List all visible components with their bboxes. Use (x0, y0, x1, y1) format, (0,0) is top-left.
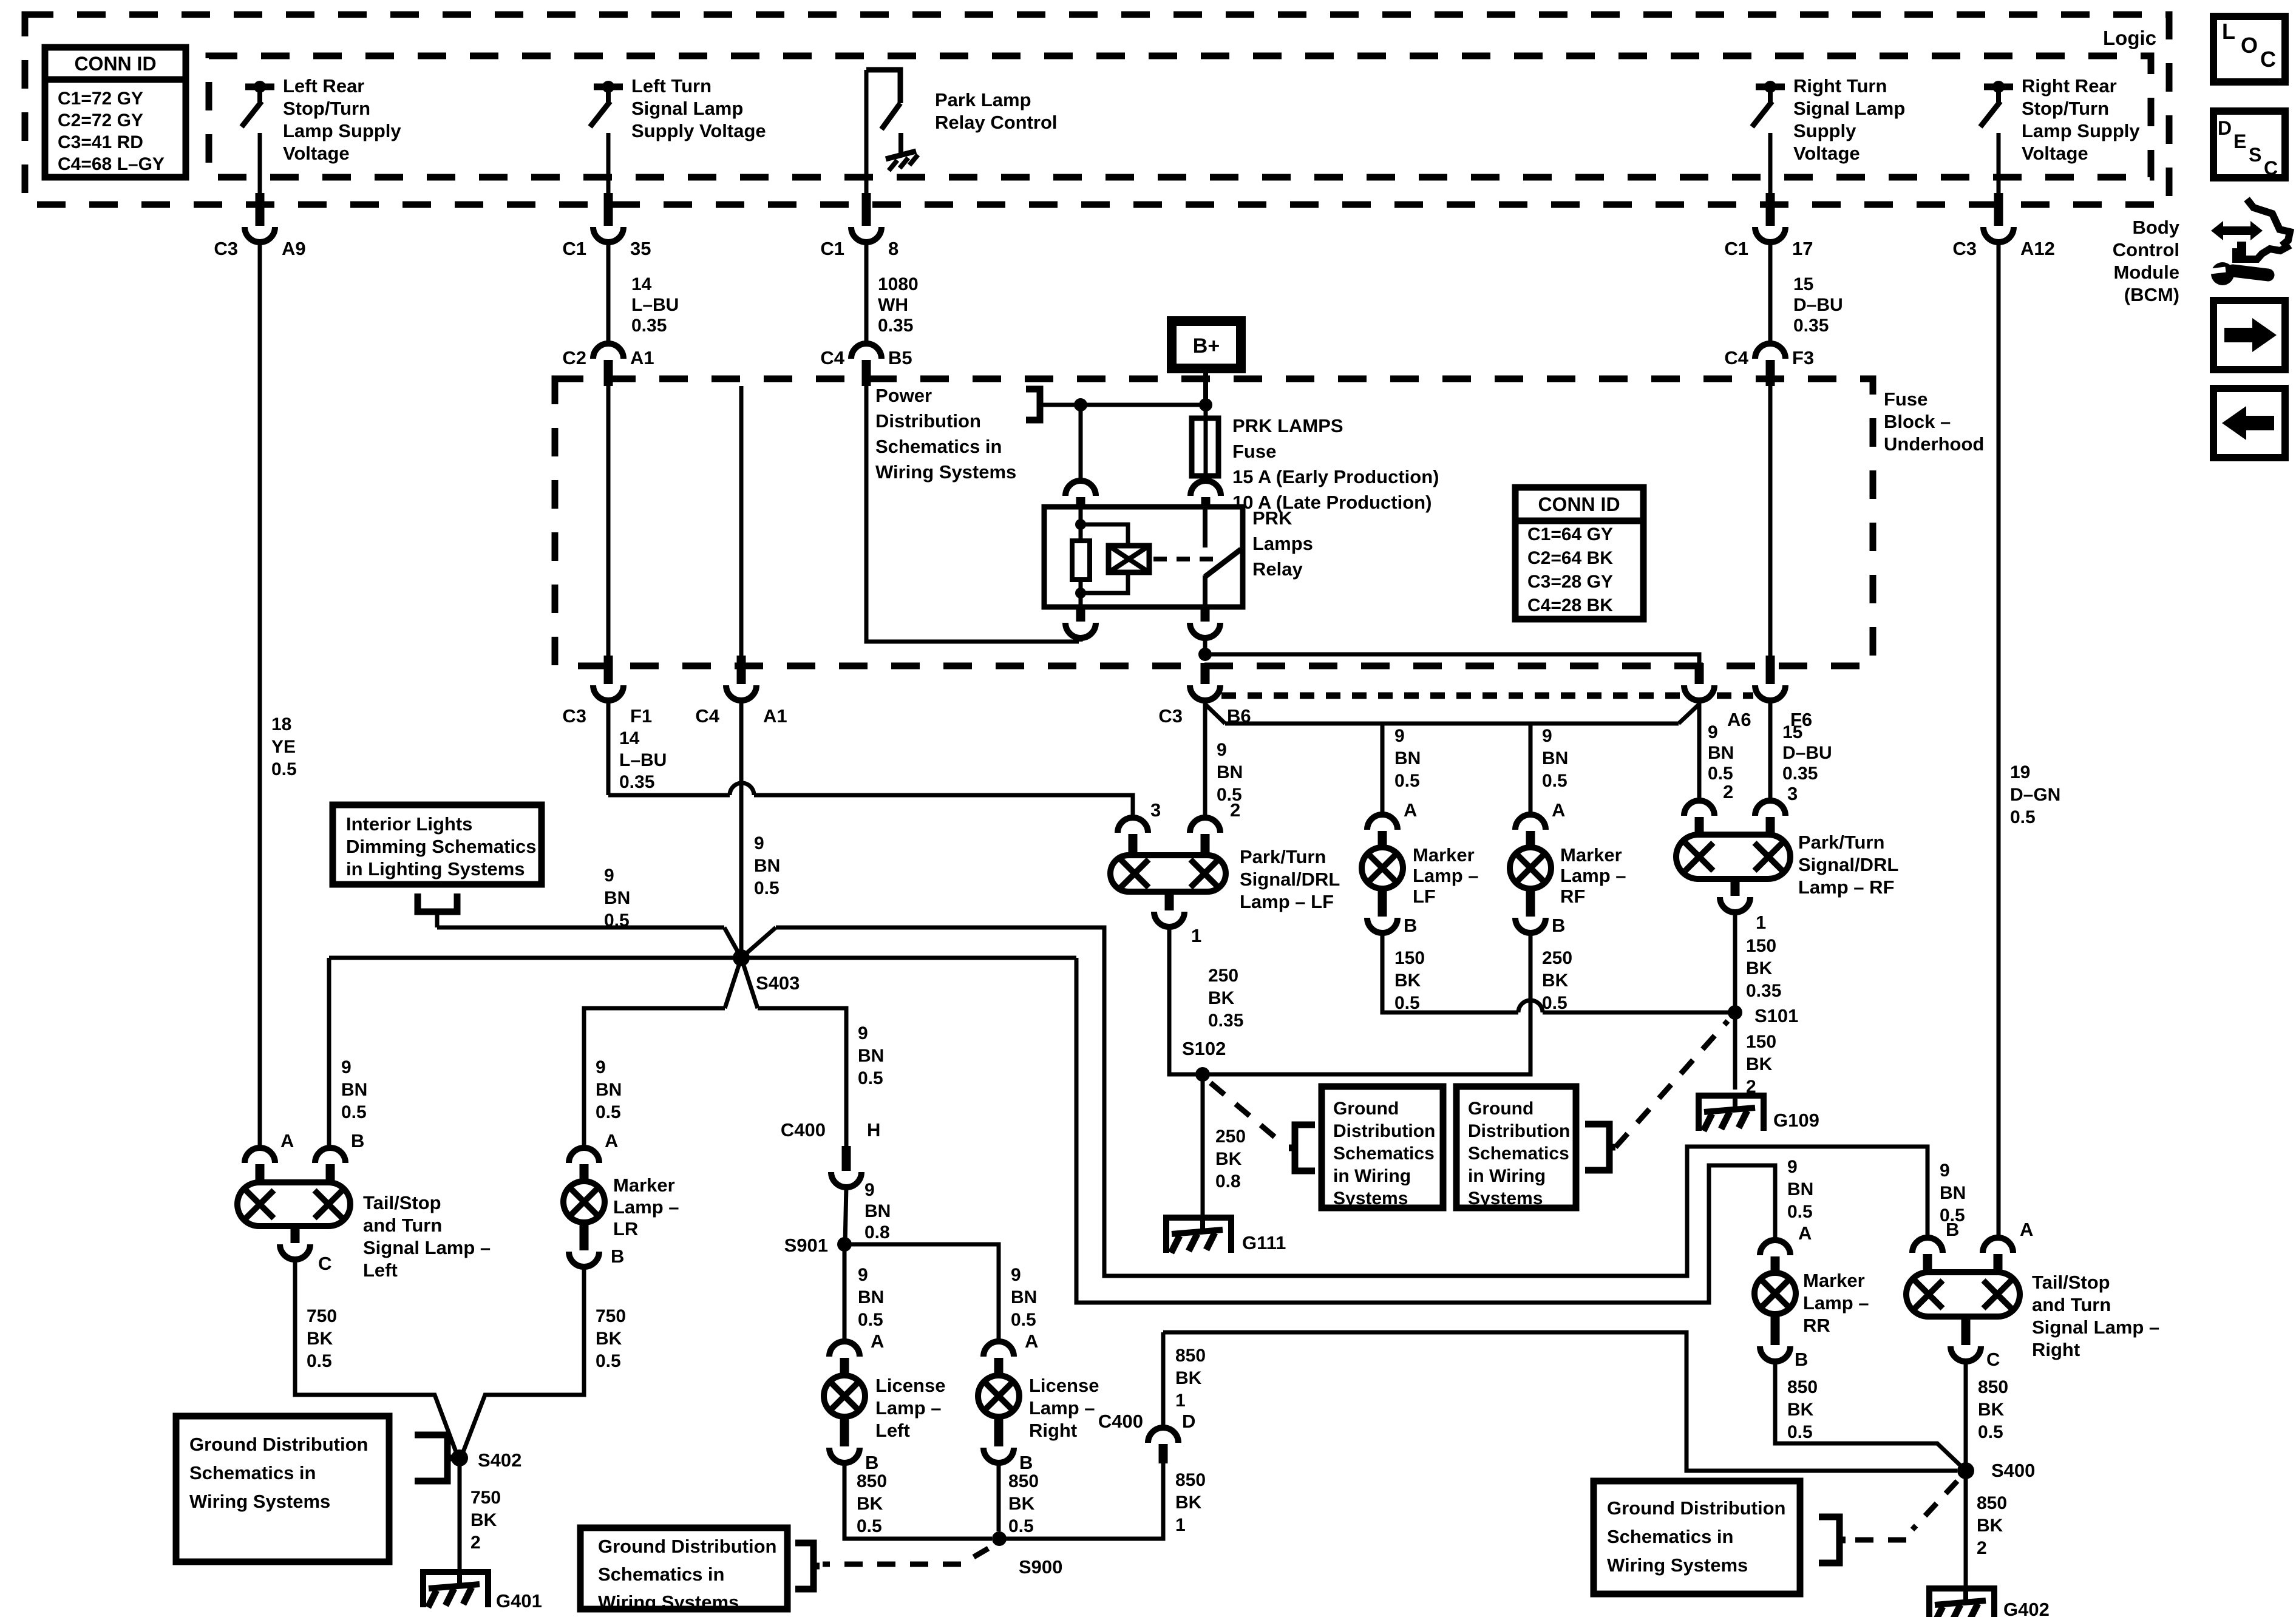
svg-text:BN: BN (1542, 748, 1568, 768)
wire S901 to license right (844, 1244, 999, 1343)
svg-text:BK: BK (470, 1510, 497, 1530)
svg-text:C: C (318, 1253, 331, 1274)
svg-text:0.5: 0.5 (596, 1102, 621, 1122)
svg-text:Logic: Logic (2103, 27, 2156, 49)
svg-text:S901: S901 (784, 1235, 828, 1256)
svg-text:BN: BN (1394, 748, 1421, 768)
wire marker LR B to S402 (750 BK 0.5) (462, 1266, 584, 1455)
svg-text:L–BU: L–BU (631, 295, 679, 315)
svg-text:Signal Lamp –: Signal Lamp – (2032, 1317, 2159, 1338)
svg-text:BN: BN (754, 856, 780, 876)
svg-text:B+: B+ (1193, 334, 1220, 358)
wire S403 run to Marker RR pin A (1076, 958, 1775, 1303)
svg-text:C1=64 GY: C1=64 GY (1527, 524, 1613, 544)
wire A1 to S403 (9 BN 0.5) (739, 700, 744, 950)
svg-text:850: 850 (1977, 1493, 2007, 1513)
wire tail right C to S400 (850 BK 0.5) (1964, 1361, 1968, 1471)
svg-text:C2: C2 (562, 347, 586, 368)
svg-text:Interior Lights: Interior Lights (346, 813, 472, 835)
svg-text:BN: BN (1787, 1179, 1813, 1199)
svg-text:C3=41 RD: C3=41 RD (58, 132, 143, 152)
svg-text:Fuse: Fuse (1232, 441, 1276, 462)
Marker Lamp - RR bulb (1754, 1273, 1796, 1314)
svg-text:15 A (Early Production): 15 A (Early Production) (1232, 466, 1439, 487)
relay coil resistor branch (1079, 509, 1083, 541)
splice S901 (837, 1237, 852, 1252)
svg-text:0.5: 0.5 (754, 878, 779, 898)
svg-text:C4=68 L–GY: C4=68 L–GY (58, 154, 165, 174)
svg-text:0.5: 0.5 (1011, 1310, 1036, 1330)
svg-text:A: A (871, 1331, 884, 1352)
License Lamp Left pin B connector (840, 1417, 849, 1446)
svg-text:B: B (351, 1130, 364, 1151)
Marker Lamp - RF feed from tie line (1529, 724, 1533, 816)
ground G401 (423, 1572, 488, 1607)
splice S900 (992, 1531, 1007, 1546)
svg-text:C4=28 BK: C4=28 BK (1527, 595, 1613, 615)
Tail/Stop Right pin B connector (1912, 1238, 1943, 1253)
svg-text:B: B (1946, 1219, 1959, 1240)
Tail/Stop Left pin C connector (291, 1226, 300, 1243)
Marker Lamp - LF feed from tie line (1381, 724, 1385, 816)
svg-text:850: 850 (857, 1471, 887, 1491)
svg-text:9: 9 (341, 1057, 352, 1077)
svg-text:Voltage: Voltage (2022, 143, 2088, 164)
svg-text:A1: A1 (763, 705, 787, 727)
svg-text:C3: C3 (562, 705, 586, 727)
svg-text:Stop/Turn: Stop/Turn (283, 98, 370, 119)
wire S400 to G402 (850 BK 2) (1964, 1471, 1968, 1586)
svg-text:850: 850 (1787, 1377, 1818, 1397)
Tail/Stop and Turn Signal Lamp - Left (237, 1182, 350, 1226)
svg-text:Voltage: Voltage (1793, 143, 1860, 164)
svg-text:35: 35 (630, 238, 651, 259)
svg-text:0.5: 0.5 (1787, 1202, 1813, 1222)
svg-text:B: B (1552, 915, 1565, 936)
svg-text:Lamps: Lamps (1252, 533, 1313, 554)
svg-text:Control: Control (2113, 239, 2179, 260)
svg-text:Signal Lamp: Signal Lamp (631, 98, 743, 119)
svg-text:BN: BN (596, 1080, 622, 1100)
svg-text:YE: YE (271, 737, 296, 757)
svg-text:S400: S400 (1991, 1460, 2035, 1481)
svg-text:0.5: 0.5 (1394, 993, 1420, 1013)
wire LF pin 1 to S102 (250 BK 0.35) (1169, 926, 1203, 1074)
svg-text:C3: C3 (1952, 238, 1977, 259)
relay coil pin connector (top) (1079, 405, 1083, 483)
svg-text:A: A (1404, 799, 1417, 821)
svg-text:0.5: 0.5 (1542, 771, 1567, 791)
svg-text:A12: A12 (2020, 238, 2055, 259)
svg-text:Right Rear: Right Rear (2022, 75, 2117, 97)
svg-text:C3: C3 (1158, 705, 1183, 727)
svg-text:Marker: Marker (613, 1175, 675, 1196)
wire C400 D to S400 (850 BK 1) (1161, 1332, 1166, 1429)
svg-text:0.5: 0.5 (271, 759, 297, 779)
svg-text:Underhood: Underhood (1884, 433, 1984, 455)
svg-text:BK: BK (1787, 1400, 1814, 1420)
svg-text:BK: BK (857, 1494, 883, 1514)
svg-text:Left: Left (363, 1259, 398, 1281)
svg-text:and Turn: and Turn (2032, 1294, 2111, 1315)
svg-text:BK: BK (1542, 971, 1569, 991)
svg-text:Tail/Stop: Tail/Stop (2032, 1272, 2110, 1293)
svg-text:Ground Distribution: Ground Distribution (189, 1434, 368, 1455)
Tail/Stop Left pin A connector (245, 1148, 275, 1163)
svg-text:0.5: 0.5 (604, 910, 630, 931)
svg-text:RF: RF (1560, 886, 1585, 907)
wire A9 to Tail/Stop Left pin A (18 YE 0.5) (258, 242, 262, 1150)
BCM pin connector C1/8 (864, 70, 869, 200)
svg-text:C: C (1986, 1349, 2000, 1370)
DESC icon box (2213, 111, 2285, 178)
svg-text:BK: BK (1978, 1400, 2005, 1420)
svg-text:Body: Body (2133, 217, 2180, 238)
ground G402 (1929, 1588, 1994, 1617)
svg-text:17: 17 (1792, 238, 1813, 259)
svg-text:0.5: 0.5 (1394, 771, 1420, 791)
svg-text:Signal Lamp –: Signal Lamp – (363, 1237, 491, 1258)
svg-text:L: L (2222, 19, 2235, 44)
Ground Distribution Schematics in Wiring Systems box 1 (1322, 1086, 1443, 1208)
BCM pin connector C3/A12 (1997, 133, 2001, 200)
svg-text:PRK: PRK (1252, 507, 1292, 529)
svg-text:1: 1 (1175, 1391, 1186, 1411)
svg-text:A6: A6 (1727, 709, 1751, 730)
svg-text:2: 2 (470, 1533, 481, 1553)
svg-text:Schematics in: Schematics in (875, 436, 1002, 457)
svg-text:0.5: 0.5 (1787, 1422, 1813, 1442)
svg-text:Distribution: Distribution (1333, 1121, 1435, 1141)
svg-text:G402: G402 (2003, 1599, 2050, 1617)
svg-text:C3: C3 (214, 238, 238, 259)
svg-text:250: 250 (1208, 966, 1238, 986)
svg-text:150: 150 (1394, 948, 1425, 968)
svg-text:2: 2 (1977, 1538, 1987, 1558)
fuse block connector C2/A1 (606, 242, 611, 345)
svg-text:9: 9 (754, 833, 764, 853)
Ground Distribution Schematics in Wiring Systems box 4 (580, 1528, 787, 1609)
bracket ground distribution note 3 (415, 1435, 447, 1481)
svg-text:2: 2 (1230, 799, 1240, 821)
splice S400 (1957, 1462, 1974, 1479)
ground G111 (1166, 1218, 1231, 1253)
svg-text:Wiring Systems: Wiring Systems (598, 1592, 739, 1613)
svg-text:BN: BN (858, 1287, 884, 1307)
svg-text:BN: BN (1011, 1287, 1037, 1307)
svg-text:Lamp Supply: Lamp Supply (283, 120, 401, 141)
svg-text:0.35: 0.35 (1782, 764, 1818, 784)
License Lamp Right pin B connector (994, 1417, 1004, 1446)
svg-text:C3=28 GY: C3=28 GY (1527, 572, 1613, 592)
Park/Turn Signal/DRL Lamp - LF pin 3 connector (1118, 818, 1148, 833)
wire B+ to fuse (1203, 368, 1208, 405)
svg-text:0.35: 0.35 (1793, 316, 1829, 336)
svg-text:0.35: 0.35 (619, 772, 654, 792)
svg-text:B: B (1404, 915, 1417, 936)
License Lamp Right pin A connector (983, 1341, 1014, 1357)
svg-text:BK: BK (1977, 1516, 2003, 1536)
BCM outer dashed box (25, 15, 2169, 205)
svg-text:0.5: 0.5 (341, 1102, 367, 1122)
svg-text:0.35: 0.35 (878, 316, 913, 336)
svg-text:Stop/Turn: Stop/Turn (2022, 98, 2109, 119)
S403 diagonal to C400 H run (741, 958, 758, 1008)
svg-text:WH: WH (878, 295, 908, 315)
svg-text:0.5: 0.5 (2010, 807, 2036, 827)
svg-text:3: 3 (1150, 799, 1161, 821)
svg-text:Marker: Marker (1560, 844, 1622, 866)
License Lamp Left pin A connector (829, 1341, 860, 1357)
svg-text:Schematics: Schematics (1333, 1144, 1435, 1164)
svg-text:0.5: 0.5 (857, 1516, 882, 1536)
svg-text:Lamp –: Lamp – (875, 1397, 942, 1419)
svg-text:9: 9 (1217, 740, 1227, 760)
svg-text:9: 9 (1708, 722, 1718, 742)
connector C400 pin H (842, 1146, 851, 1171)
svg-text:G111: G111 (1242, 1232, 1286, 1253)
svg-text:1: 1 (1756, 912, 1766, 933)
Tail/Stop Right pin C connector (1961, 1317, 1971, 1345)
svg-text:250: 250 (1215, 1127, 1246, 1147)
Park/Turn Signal/DRL Lamp - RF pin 3 connector (1768, 700, 1773, 802)
svg-text:Park Lamp: Park Lamp (935, 89, 1031, 110)
crossover hop over A1 wire (730, 783, 754, 795)
S403 diagonal to dimming wire (724, 927, 741, 958)
dashed link S900 to ground distribution note 4 (966, 1548, 988, 1561)
Tail/Stop Left pin B connector (315, 1148, 345, 1163)
BCM pin connector C1/17 (1768, 133, 1773, 200)
S403 diagonal to marker LR run (725, 958, 741, 1008)
wire S900 to C400 pin D (999, 1463, 1163, 1539)
svg-text:H: H (867, 1119, 880, 1141)
Ground Distribution Schematics in Wiring Systems box 5 (1594, 1481, 1800, 1594)
relay output wire to A6 (1205, 654, 1699, 665)
svg-text:C4: C4 (1724, 347, 1748, 368)
svg-text:0.35: 0.35 (1746, 981, 1781, 1001)
svg-text:BN: BN (604, 888, 630, 908)
svg-text:A: A (1798, 1222, 1812, 1244)
internal feed wire to relay coil (1041, 403, 1206, 407)
Marker Lamp - RF pin A connector (1515, 815, 1546, 830)
relay actuation dashed link (1153, 557, 1214, 561)
BCM driver: Right Turn Signal Lamp Supply Voltage (1756, 84, 1785, 90)
Park/Turn Signal/DRL Lamp - LF pin 2 connector (1203, 700, 1207, 819)
svg-text:850: 850 (1175, 1470, 1206, 1490)
relay switch bottom pin connector (1201, 607, 1210, 622)
svg-text:BK: BK (1175, 1493, 1202, 1513)
svg-text:S: S (2249, 144, 2261, 166)
svg-text:Lamp Supply: Lamp Supply (2022, 120, 2140, 141)
CONN ID table (fuse block connectors) (1515, 487, 1643, 619)
svg-text:BK: BK (1008, 1494, 1035, 1514)
Tail/Stop and Turn Signal Lamp - Right (1906, 1272, 2020, 1317)
B+ feed terminal (1172, 321, 1241, 368)
svg-text:Signal Lamp: Signal Lamp (1793, 98, 1905, 119)
BCM driver: Park Lamp Relay Control (switch to ground) (866, 70, 900, 103)
svg-text:G109: G109 (1773, 1110, 1819, 1131)
BCM pin connector C3/A9 (258, 133, 262, 200)
svg-text:150: 150 (1746, 1032, 1776, 1052)
svg-text:Relay Control: Relay Control (935, 112, 1058, 133)
svg-text:and Turn: and Turn (363, 1215, 442, 1236)
svg-text:Supply: Supply (1793, 120, 1856, 141)
svg-text:Distribution: Distribution (875, 410, 981, 432)
wire A12 to Tail/Stop Right pin A (19 D-GN 0.5) (1997, 242, 2001, 1239)
wire tail left C to S402 (750 BK 0.5) (295, 1259, 457, 1455)
svg-text:License: License (875, 1375, 945, 1396)
wire marker RF B to S102 (1208, 932, 1530, 1074)
wire B5 control to relay coil (866, 386, 1079, 642)
svg-text:9: 9 (1542, 726, 1552, 746)
svg-text:Power: Power (875, 385, 932, 406)
svg-text:B: B (1019, 1452, 1033, 1473)
wire RF pin1 to S101 (150 BK 0.35) (1733, 912, 1737, 1090)
svg-text:850: 850 (1008, 1471, 1039, 1491)
svg-text:0.5: 0.5 (1008, 1516, 1034, 1536)
fuse block connector C4/A1 exit (739, 386, 744, 659)
wire S403 to Tail/Stop Left pin B (327, 958, 331, 1150)
Marker Lamp - RR pin B connector (1771, 1314, 1780, 1345)
wire S402 to G401 (750 BK 2) (458, 1458, 462, 1570)
svg-text:9: 9 (1940, 1161, 1950, 1181)
wire B6-A6 tie line (1225, 722, 1679, 726)
svg-text:9: 9 (858, 1265, 868, 1285)
svg-text:RR: RR (1803, 1315, 1830, 1336)
bracket to power distribution note (1026, 389, 1040, 420)
wire marker LF B to S101 (1382, 932, 1518, 1012)
svg-text:Systems: Systems (1468, 1188, 1543, 1209)
svg-text:F3: F3 (1792, 347, 1814, 368)
svg-text:0.5: 0.5 (1978, 1422, 2003, 1442)
svg-text:D–BU: D–BU (1793, 295, 1843, 315)
crossover hop over marker RF wire (1518, 1000, 1543, 1012)
svg-text:0.5: 0.5 (1542, 993, 1567, 1013)
svg-text:O: O (2241, 33, 2258, 58)
svg-text:C2=72 GY: C2=72 GY (58, 110, 143, 131)
svg-text:Left Turn: Left Turn (631, 75, 712, 97)
relay coil winding branch (1081, 524, 1128, 546)
splice S402 (451, 1449, 468, 1466)
svg-text:Ground Distribution: Ground Distribution (1607, 1497, 1785, 1519)
dimming wire to S403 (437, 926, 724, 930)
svg-text:18: 18 (271, 714, 291, 734)
Marker Lamp - LF bulb (1362, 847, 1403, 889)
svg-text:Lamp – RF: Lamp – RF (1798, 876, 1894, 898)
svg-text:S900: S900 (1019, 1556, 1062, 1578)
svg-text:9: 9 (864, 1180, 875, 1200)
svg-text:Lamp –: Lamp – (613, 1196, 679, 1218)
svg-text:Left: Left (875, 1420, 910, 1441)
relay coil bottom pin connector (1076, 607, 1085, 622)
svg-text:Dimming Schematics: Dimming Schematics (346, 836, 537, 857)
svg-text:Park/Turn: Park/Turn (1798, 832, 1884, 853)
connector C400 pin D (1148, 1428, 1178, 1443)
svg-text:LR: LR (613, 1218, 638, 1239)
svg-text:0.5: 0.5 (307, 1351, 332, 1371)
wire license right to S900 (997, 1462, 1001, 1531)
svg-text:BK: BK (307, 1329, 333, 1349)
PRK LAMPS Fuse (1204, 405, 1208, 418)
svg-text:License: License (1029, 1375, 1099, 1396)
svg-text:C1: C1 (562, 238, 586, 259)
dashed link S101 to ground distribution note 2 (1615, 1021, 1728, 1147)
svg-text:15: 15 (1793, 274, 1813, 294)
LOC icon box (2213, 16, 2285, 82)
License Lamp - Left bulb (824, 1375, 865, 1417)
svg-text:A1: A1 (630, 347, 654, 368)
svg-text:BN: BN (1217, 762, 1243, 782)
License Lamp - Right bulb (978, 1375, 1019, 1417)
Marker Lamp - RF bulb (1510, 847, 1551, 889)
Marker Lamp - LF pin B connector (1378, 889, 1387, 917)
svg-text:Wiring Systems: Wiring Systems (875, 461, 1016, 483)
fuse block connector C3/F1 (606, 386, 611, 659)
wire S403 to C400 pin H (758, 1008, 846, 1146)
svg-text:Marker: Marker (1413, 844, 1475, 866)
wire marker RR B to S400 (1775, 1361, 1963, 1468)
splice S101 (1728, 1005, 1742, 1020)
svg-text:C400: C400 (1098, 1411, 1143, 1432)
Marker Lamp - LF pin A connector (1367, 815, 1398, 830)
bracket ground distribution note 4 (795, 1543, 813, 1589)
splice S403 (733, 949, 750, 966)
svg-text:C2=64 BK: C2=64 BK (1527, 548, 1613, 568)
svg-text:A9: A9 (282, 238, 306, 259)
relay switch (1203, 507, 1207, 547)
fuse block connector F6 (1768, 386, 1773, 659)
splice S102 (1195, 1067, 1210, 1082)
svg-text:3: 3 (1787, 783, 1798, 804)
svg-text:BK: BK (1746, 1054, 1773, 1074)
svg-text:Systems: Systems (1333, 1188, 1408, 1209)
Marker Lamp - RR pin A connector (1760, 1240, 1790, 1255)
svg-text:1: 1 (1191, 925, 1201, 946)
Park/Turn Signal/DRL Lamp - LF (1110, 855, 1226, 892)
Ground Distribution Schematics in Wiring Systems box 3 (176, 1416, 389, 1562)
svg-text:BK: BK (1208, 988, 1235, 1008)
svg-text:D–BU: D–BU (1782, 743, 1832, 763)
svg-text:Voltage: Voltage (283, 143, 350, 164)
svg-text:BN: BN (1708, 743, 1734, 763)
svg-text:C: C (2264, 157, 2278, 179)
svg-text:Relay: Relay (1252, 558, 1303, 580)
svg-text:Right: Right (2032, 1339, 2080, 1360)
S403 diagonal to right upper run (741, 927, 776, 958)
svg-text:Signal/DRL: Signal/DRL (1240, 869, 1340, 890)
svg-text:9: 9 (1011, 1265, 1021, 1285)
svg-text:Marker: Marker (1803, 1270, 1865, 1291)
svg-text:B: B (611, 1246, 624, 1267)
back arrow icon box (2213, 388, 2285, 458)
svg-text:C4: C4 (695, 705, 719, 727)
svg-text:BN: BN (858, 1046, 884, 1066)
svg-text:1080: 1080 (878, 274, 919, 294)
svg-text:BN: BN (341, 1080, 367, 1100)
svg-text:0.8: 0.8 (864, 1222, 890, 1242)
svg-text:D: D (2218, 117, 2232, 139)
svg-text:Lamp – LF: Lamp – LF (1240, 891, 1334, 912)
svg-text:CONN ID: CONN ID (74, 53, 156, 75)
svg-text:14: 14 (619, 728, 640, 748)
fuse block connector strip dashed line (1221, 693, 1682, 699)
svg-text:F1: F1 (630, 705, 652, 727)
ground G109 (1699, 1096, 1764, 1131)
svg-text:A: A (2020, 1219, 2033, 1240)
svg-text:9: 9 (596, 1057, 606, 1077)
svg-text:Left Rear: Left Rear (283, 75, 364, 97)
svg-text:15: 15 (1782, 722, 1802, 742)
